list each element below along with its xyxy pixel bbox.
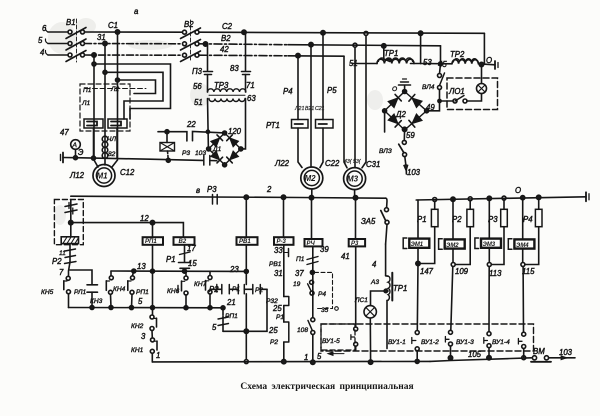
svg-text:115: 115	[522, 267, 535, 276]
svg-text:5: 5	[38, 36, 43, 45]
wire: ground line to bridge D1	[76, 158, 203, 161]
wire: bus 1 (horizontal control bus)	[71, 196, 386, 198]
svg-text:а: а	[134, 7, 139, 16]
wire: M3 lead 1	[344, 56, 347, 168]
switch in lamp box	[447, 96, 467, 104]
contact P2 on R-3 column	[282, 322, 289, 364]
svg-text:ВМ: ВМ	[533, 347, 545, 356]
wire: row C from B1 to B2	[85, 54, 183, 56]
coil EL1 (hatched box)	[61, 223, 78, 244]
contactor P1 power contact	[84, 119, 103, 128]
svg-text:С1: С1	[108, 21, 118, 30]
svg-text:Р-3: Р-3	[277, 239, 287, 245]
transformer TP3	[203, 30, 250, 102]
svg-text:Р2: Р2	[452, 215, 462, 224]
svg-text:Р2: Р2	[255, 287, 263, 294]
wire: M3 lead 3	[362, 35, 366, 167]
svg-text:П1: П1	[83, 87, 92, 94]
electromagnet EM4	[508, 196, 534, 263]
lamp box LO1 (dashed)	[447, 78, 498, 110]
pedal switch dashed box	[54, 200, 83, 245]
hop circle M3 feed row B	[353, 43, 357, 47]
wire: contact row P2 P1 P2	[210, 285, 267, 334]
svg-text:С31: С31	[366, 160, 380, 169]
svg-text:Р3: Р3	[182, 150, 190, 157]
motor M3	[344, 168, 366, 198]
svg-text:Р5: Р5	[327, 86, 337, 95]
svg-text:Р1: Р1	[276, 314, 284, 321]
wire: 53-45 link	[421, 63, 452, 65]
wire: line 22 to bridge D1 top	[158, 132, 187, 141]
lamp LC1	[364, 306, 376, 365]
svg-text:РВ1: РВ1	[269, 261, 282, 268]
contactor L1 power contact	[108, 119, 127, 128]
fuse C02	[160, 130, 175, 163]
svg-text:Р2: Р2	[209, 285, 219, 294]
button KH3/RP1	[128, 271, 135, 308]
svg-text:Д1: Д1	[212, 146, 222, 153]
svg-text:45: 45	[438, 60, 447, 69]
contact RP1 (node 5)	[218, 308, 229, 332]
svg-text:2: 2	[266, 185, 272, 194]
svg-text:Л21: Л21	[294, 106, 304, 112]
lamp LO1	[467, 84, 487, 102]
svg-text:ЭМ3: ЭМ3	[483, 242, 496, 248]
svg-text:103: 103	[559, 348, 573, 357]
svg-text:39: 39	[320, 245, 329, 254]
svg-text:25: 25	[268, 326, 278, 335]
svg-text:113: 113	[489, 269, 502, 278]
svg-text:Л12: Л12	[69, 171, 85, 180]
contact 108 on P4 column	[308, 318, 315, 365]
tap A3 to lamp LC1	[371, 289, 389, 306]
node 147	[416, 261, 420, 265]
contact 11 below coil	[65, 244, 76, 262]
svg-text:23: 23	[229, 265, 239, 274]
svg-text:1: 1	[156, 351, 160, 360]
crossover interlock wiring (contactor reversing)	[85, 62, 171, 119]
wire: phase input C	[48, 54, 68, 56]
svg-text:ВУ1-5: ВУ1-5	[322, 338, 340, 345]
svg-text:С12: С12	[120, 168, 135, 177]
svg-text:П1: П1	[296, 256, 305, 263]
svg-text:КН4: КН4	[113, 286, 126, 293]
svg-text:КН2: КН2	[131, 323, 144, 330]
svg-text:КН5: КН5	[41, 289, 54, 296]
svg-text:О: О	[486, 56, 492, 65]
svg-text:56: 56	[193, 82, 202, 91]
svg-text:Э: Э	[78, 148, 84, 157]
relay coil RP1 box	[143, 223, 163, 245]
svg-text:ТР1: ТР1	[384, 49, 398, 58]
wire: phase input B	[48, 43, 68, 45]
open circle on bottom bus at RB1	[244, 360, 248, 364]
resistor R4	[525, 195, 542, 264]
wire: RB1 column down	[245, 271, 247, 359]
contact RP1 (parallel to KH5)	[70, 270, 98, 308]
wire: bus 2	[69, 307, 224, 309]
wire: TP3 secondary right down to bridge D1	[241, 99, 246, 149]
svg-text:25: 25	[272, 304, 282, 313]
transformer TP2	[452, 59, 495, 65]
electromagnet EM3	[475, 196, 501, 262]
svg-text:С2: С2	[222, 22, 233, 31]
arrow under BU1-5	[328, 352, 344, 356]
relay coil RB1 box	[237, 195, 258, 271]
svg-text:ЛО1: ЛО1	[448, 87, 465, 96]
svg-text:105: 105	[468, 350, 482, 359]
svg-text:В21: В21	[305, 106, 314, 112]
switch BA3	[399, 129, 408, 174]
ground above D2	[399, 79, 411, 92]
svg-text:51: 51	[194, 98, 203, 107]
svg-text:47: 47	[60, 128, 69, 137]
switch B2 (3-pole knife switch)	[181, 20, 201, 62]
switch BU1-5 contact	[351, 327, 358, 350]
svg-text:Р3: Р3	[488, 215, 498, 224]
switch BU1-4 contact	[518, 332, 525, 360]
wire: M2 lead 1 through heater	[298, 56, 302, 168]
svg-text:Р4: Р4	[283, 87, 293, 96]
switch B1 (3-pole knife switch)	[66, 19, 86, 62]
resistor R3	[492, 196, 508, 264]
svg-text:19: 19	[293, 281, 301, 288]
svg-text:13: 13	[137, 262, 146, 271]
contact chain 37/19 column	[307, 257, 318, 296]
wire: row B from B2 to corner 45	[199, 43, 288, 46]
svg-text:РВ1: РВ1	[239, 239, 251, 245]
svg-text:ВУ1-4: ВУ1-4	[492, 339, 510, 346]
svg-text:ЭМ1: ЭМ1	[411, 242, 424, 248]
svg-text:Р2: Р2	[52, 257, 62, 266]
wire: contact drops to ground line	[94, 128, 118, 158]
relay coil P4 box and column	[305, 195, 323, 317]
button KH6	[178, 271, 188, 308]
wire: row A from B2 to corner at TP2	[199, 32, 484, 33]
svg-text:83: 83	[230, 64, 239, 73]
svg-text:17: 17	[187, 244, 196, 253]
svg-text:О: О	[392, 86, 397, 93]
svg-text:49: 49	[426, 103, 435, 112]
svg-text:Р2: Р2	[270, 339, 278, 346]
wire: row C vertical to M1	[94, 55, 98, 167]
svg-text:37: 37	[295, 269, 304, 278]
node O (top right)	[479, 62, 483, 66]
svg-text:4: 4	[372, 260, 377, 269]
svg-text:П3: П3	[192, 67, 203, 76]
svg-text:Л2: Л2	[110, 86, 120, 93]
svg-text:ВЛЗ: ВЛЗ	[379, 148, 392, 155]
svg-text:С22: С22	[325, 159, 340, 168]
node M2 feed row C	[296, 53, 300, 57]
svg-text:3: 3	[141, 332, 146, 341]
ammeter A	[71, 140, 81, 158]
svg-text:53: 53	[423, 58, 432, 67]
svg-text:М2: М2	[305, 174, 317, 183]
svg-text:82: 82	[108, 151, 116, 158]
wire: row A corner down to node O	[483, 33, 485, 64]
svg-text:ЗА5: ЗА5	[361, 217, 376, 226]
svg-text:ВУ1-3: ВУ1-3	[456, 339, 474, 346]
motor M1	[93, 165, 115, 187]
contact P2	[65, 262, 77, 264]
svg-text:В1: В1	[66, 18, 76, 27]
wire: M3 lead 2	[354, 47, 356, 167]
svg-text:Р1: Р1	[166, 255, 176, 264]
svg-text:5: 5	[317, 352, 322, 361]
button KH7	[206, 271, 217, 307]
svg-text:РП1: РП1	[136, 289, 149, 296]
ground at right end of bus1	[586, 192, 589, 201]
svg-text:В2: В2	[221, 34, 231, 43]
svg-text:59: 59	[406, 131, 415, 140]
node row C tap	[92, 53, 96, 57]
svg-text:103: 103	[195, 150, 206, 157]
pedal contact 1	[65, 200, 77, 223]
node 109	[451, 263, 455, 267]
dashed linkage P4	[315, 272, 339, 310]
wire: D2 left corner stub	[384, 111, 386, 132]
switch BU1-5 dashed box	[321, 324, 355, 350]
svg-text:РП1: РП1	[145, 239, 157, 245]
svg-text:РП1: РП1	[225, 313, 238, 320]
relay coil R-3 box and column	[274, 195, 294, 296]
button KH5	[64, 262, 71, 308]
svg-text:63: 63	[247, 94, 256, 103]
svg-text:Р3: Р3	[351, 241, 359, 247]
svg-text:А: А	[72, 142, 78, 149]
svg-text:С21: С21	[315, 106, 325, 112]
svg-text:31: 31	[97, 33, 106, 42]
contact 15	[179, 263, 191, 272]
node 53 to row A	[418, 31, 422, 35]
svg-text:КН3: КН3	[90, 298, 103, 305]
wire: 31 vertical to M1	[104, 44, 106, 166]
svg-text:147: 147	[420, 267, 434, 276]
relay coil P3 box and column	[349, 196, 365, 327]
svg-text:71: 71	[246, 81, 255, 90]
switch BU1-2 contact	[445, 330, 452, 360]
svg-text:Р1: Р1	[417, 215, 427, 224]
svg-text:11: 11	[59, 250, 66, 257]
switch BL4	[438, 64, 445, 101]
svg-text:в: в	[196, 186, 200, 195]
svg-text:В2: В2	[179, 239, 187, 245]
svg-text:42: 42	[220, 45, 229, 54]
svg-text:РЧ: РЧ	[307, 241, 316, 247]
interlock dashed enclosure	[80, 84, 130, 131]
wire: row B from B1 to B2	[85, 43, 183, 45]
node 113	[487, 263, 491, 267]
svg-text:Р3: Р3	[207, 185, 217, 194]
ground at node O	[495, 61, 498, 69]
svg-text:51: 51	[349, 59, 358, 68]
contact P1 on R-3 column	[284, 297, 289, 323]
button KH4	[106, 271, 113, 308]
contact P3 on bus1	[213, 195, 218, 205]
wire: bottom bus right part	[430, 358, 532, 362]
svg-text:15: 15	[188, 259, 197, 268]
motor M2	[301, 167, 323, 198]
wire: bottom bus 3 (left part)	[152, 360, 430, 363]
svg-text:РЛ1: РЛ1	[74, 289, 86, 296]
svg-text:ВЛ4: ВЛ4	[422, 84, 435, 91]
svg-text:41: 41	[341, 252, 350, 261]
thermal element RT1 phase 3	[316, 120, 334, 129]
svg-text:22: 22	[186, 120, 196, 129]
wire: phase input A	[48, 31, 68, 33]
diode bridge D1	[207, 131, 243, 167]
svg-text:109: 109	[455, 267, 469, 276]
svg-text:ТР1: ТР1	[393, 284, 407, 293]
svg-text:ТР2: ТР2	[450, 50, 465, 59]
node 49	[427, 101, 440, 111]
svg-text:ЧЛ: ЧЛ	[107, 136, 116, 143]
switch 3A5	[381, 198, 389, 244]
hop circle M3 feed row A	[364, 31, 368, 35]
electromagnet EM2	[439, 197, 465, 262]
svg-text:О: О	[515, 186, 521, 195]
switch BU1-1 contact	[412, 331, 419, 364]
svg-text:1: 1	[304, 353, 308, 362]
svg-text:Л22: Л22	[274, 159, 290, 168]
svg-text:ТР3: ТР3	[214, 81, 229, 90]
transformer TP1 (power)	[352, 44, 421, 64]
svg-text:ВУ1-1: ВУ1-1	[388, 339, 406, 346]
svg-text:КН7: КН7	[194, 281, 207, 288]
svg-text:21: 21	[226, 298, 236, 307]
wire: M2 lead 2	[310, 45, 312, 167]
wire: line 13/23 horizontal	[111, 270, 246, 272]
svg-text:7: 7	[59, 268, 64, 277]
svg-text:43( 53(: 43( 53(	[344, 159, 362, 165]
ground (left of ammeter)	[61, 153, 76, 163]
svg-text:5: 5	[212, 323, 217, 332]
wire: row C from B2 to corner M3	[199, 54, 288, 57]
wire: TP3 secondary left down	[207, 99, 210, 149]
svg-text:ВУ1-2: ВУ1-2	[421, 339, 439, 346]
button KH2	[150, 308, 157, 331]
node 31	[103, 41, 107, 45]
rotor winding stack on M1 lead	[102, 136, 108, 158]
autotransformer TP1 (control)	[386, 244, 393, 349]
svg-text:6: 6	[42, 24, 47, 33]
svg-text:Р4: Р4	[318, 291, 326, 298]
svg-text:КН1: КН1	[131, 347, 144, 354]
svg-text:М1: М1	[97, 172, 109, 181]
resistor R2	[455, 197, 473, 265]
electromagnet EM1	[403, 200, 429, 264]
wire: C1 vertical to M1	[112, 32, 118, 167]
svg-text:Схема электрическая принципиал: Схема электрическая принципиальная	[240, 382, 413, 392]
thermal element RT1 phase 1	[292, 120, 309, 129]
node M2 feed row B	[309, 42, 313, 46]
svg-text:ЛС1: ЛС1	[354, 297, 368, 304]
wire: row A from B1 to B2	[85, 31, 183, 33]
contact P3 (gap) on ground line	[204, 156, 217, 166]
resistor R1	[418, 198, 438, 264]
svg-text:КН6: КН6	[167, 288, 180, 295]
svg-text:В2: В2	[184, 20, 194, 29]
svg-text:Д2: Д2	[395, 110, 406, 119]
contact 17 below B2	[180, 245, 191, 262]
wire: row B corner down to node 45	[440, 46, 442, 64]
svg-text:Л1: Л1	[81, 100, 91, 107]
switch BM	[531, 356, 575, 362]
svg-text:М3: М3	[347, 175, 359, 184]
svg-text:108: 108	[297, 327, 308, 334]
svg-text:4: 4	[40, 48, 45, 57]
node pedal junction	[69, 220, 73, 224]
limit switch dashed enclosure	[321, 324, 534, 351]
wire: RP1 column down to bus2	[152, 245, 154, 308]
svg-text:РТ1: РТ1	[266, 121, 280, 130]
diode bridge D2	[383, 90, 429, 132]
svg-text:33: 33	[274, 246, 283, 255]
node C1	[115, 30, 119, 34]
svg-text:103: 103	[407, 168, 421, 177]
relay coil B2 box	[174, 237, 195, 245]
wire: line 12 from pedal to B2 coil	[71, 223, 184, 238]
svg-text:ЭМ4: ЭМ4	[516, 243, 529, 249]
svg-text:12: 12	[140, 214, 149, 223]
node M2 feed row A	[321, 31, 325, 35]
svg-text:А3: А3	[370, 279, 379, 286]
wire: M2 lead 3 through heater	[320, 33, 323, 168]
svg-text:Р4: Р4	[523, 215, 533, 224]
wire: O down to lamp	[481, 65, 483, 84]
button KH1	[150, 331, 157, 362]
switch BU1-3 contact	[484, 332, 491, 360]
svg-text:35: 35	[321, 307, 329, 314]
svg-text:Р1: Р1	[232, 286, 240, 293]
svg-text:ЭМ2: ЭМ2	[446, 243, 459, 249]
contact RP1 right of R-3	[288, 249, 290, 257]
svg-text:120: 120	[228, 127, 242, 136]
svg-text:31: 31	[274, 269, 283, 278]
svg-text:5: 5	[138, 297, 143, 306]
node 115	[521, 263, 525, 267]
